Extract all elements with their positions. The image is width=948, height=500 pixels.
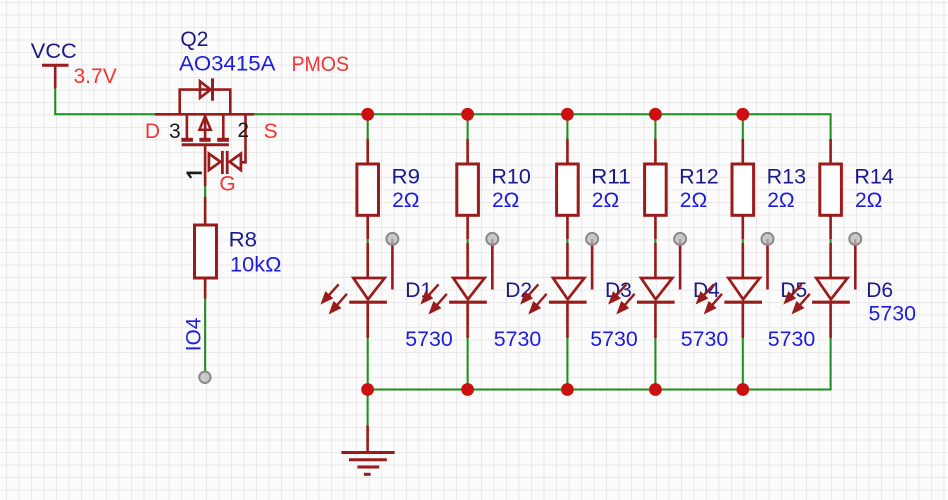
svg-text:AO3415A: AO3415A: [179, 53, 276, 76]
pin rail D-S: [155, 113, 254, 116]
wire D1 to bottom rail: [367, 338, 369, 390]
LED D4: [637, 243, 675, 338]
unconnected pin D2: [491, 239, 494, 290]
svg-text:2Ω: 2Ω: [492, 189, 519, 212]
svg-text:3.7V: 3.7V: [74, 65, 117, 88]
svg-text:R12: R12: [679, 165, 719, 188]
wire rail to R9: [367, 114, 369, 139]
LED D5: [724, 243, 762, 338]
LED D1: [349, 243, 387, 338]
svg-text:2Ω: 2Ω: [680, 189, 707, 212]
svg-text:2: 2: [237, 119, 249, 142]
wire rail to R12: [654, 114, 656, 139]
gate zener left triangle: [209, 154, 221, 171]
svg-text:5730: 5730: [405, 328, 453, 351]
pin number 1: [187, 173, 202, 178]
svg-text:2Ω: 2Ω: [592, 189, 619, 212]
LED arrows D2: [421, 284, 447, 313]
LED D2: [449, 243, 487, 338]
transistor Q2: [155, 78, 254, 186]
svg-text:D6: D6: [866, 279, 893, 302]
wire R11 to D3: [566, 239, 568, 243]
junction top rail col 1: [361, 108, 374, 121]
svg-text:R14: R14: [854, 165, 894, 188]
resistor R11: [557, 139, 579, 239]
PMOS arrow: [199, 116, 210, 130]
unconnected pin D1: [391, 239, 394, 290]
svg-text:G: G: [219, 173, 235, 196]
svg-text:2Ω: 2Ω: [392, 189, 419, 212]
svg-text:S: S: [264, 120, 278, 143]
wire D4 to bottom rail: [654, 338, 656, 390]
unconnected pin D4: [679, 239, 682, 290]
svg-text:PMOS: PMOS: [292, 53, 350, 76]
resistor R8: [195, 197, 217, 299]
svg-text:5730: 5730: [590, 328, 638, 351]
junction bottom rail col 3: [561, 383, 574, 396]
unconnected pin D3: [591, 239, 594, 290]
wire R9 to D1: [367, 239, 369, 243]
LED D3: [549, 243, 587, 338]
junction top rail col 2: [461, 108, 474, 121]
svg-text:5730: 5730: [494, 328, 542, 351]
junction bottom rail col 4: [649, 383, 662, 396]
contact verticals: [186, 114, 189, 140]
svg-text:R10: R10: [491, 165, 531, 188]
ground: [341, 426, 394, 475]
junction bottom rail col 1: [361, 383, 374, 396]
wire rail to R11: [566, 114, 568, 139]
LED D6: [812, 243, 850, 338]
junction bottom rail col 2: [461, 383, 474, 396]
svg-text:VCC: VCC: [31, 40, 77, 63]
unconnected pin D5: [766, 239, 769, 290]
LED arrows D3: [521, 284, 547, 313]
body diode legs: [180, 90, 231, 115]
LED arrows D6: [784, 284, 810, 313]
gate pin: [204, 145, 207, 186]
svg-text:R13: R13: [767, 165, 807, 188]
wire VCC to Q2 drain: [55, 88, 155, 114]
resistor R9: [357, 139, 379, 239]
svg-text:Q2: Q2: [180, 28, 208, 51]
wire Q2 gate to R8: [204, 186, 206, 197]
contact bars: [181, 138, 193, 142]
gate zener right triangle: [230, 154, 241, 171]
LED arrows D5: [696, 284, 722, 313]
wire top rail (Q2 source to LED columns): [254, 114, 831, 139]
svg-text:R11: R11: [591, 165, 631, 188]
svg-text:R8: R8: [229, 229, 258, 252]
junction bottom rail col 5: [736, 383, 749, 396]
power VCC: [42, 65, 69, 88]
LED arrows D1: [321, 284, 347, 313]
wire D3 to bottom rail: [566, 338, 568, 390]
wire R13 to D5: [742, 239, 744, 243]
wire R12 to D4: [654, 239, 656, 243]
zener to source wire: [241, 114, 246, 162]
svg-text:5730: 5730: [768, 328, 816, 351]
wire D2 to bottom rail: [467, 338, 469, 390]
gate zener bars: [221, 151, 224, 174]
svg-text:5730: 5730: [869, 303, 917, 326]
wire R14 to D6: [830, 239, 832, 243]
gate plate: [182, 143, 229, 146]
svg-text:5730: 5730: [681, 328, 729, 351]
junction top rail col 5: [736, 108, 749, 121]
wire R10 to D2: [467, 239, 469, 243]
wire rail to R13: [742, 114, 744, 139]
svg-text:3: 3: [169, 120, 181, 143]
wire bottom rail to ground: [367, 390, 369, 426]
svg-text:2Ω: 2Ω: [767, 189, 794, 212]
resistor R13: [732, 139, 754, 239]
svg-text:2Ω: 2Ω: [855, 189, 882, 212]
LED arrows D4: [609, 284, 635, 313]
wire R8 to IO4 pin: [204, 299, 206, 373]
junction top rail col 3: [561, 108, 574, 121]
pin endpoint IO4: [199, 372, 210, 383]
unconnected pin D6: [854, 239, 857, 290]
wire D5 to bottom rail: [742, 338, 744, 390]
svg-text:R9: R9: [392, 165, 421, 188]
resistor R12: [645, 139, 667, 239]
svg-text:IO4: IO4: [183, 317, 206, 351]
wire bottom rail (LED cathodes to ground): [368, 338, 831, 390]
junction top rail col 4: [649, 108, 662, 121]
resistor R10: [457, 139, 479, 239]
body diode triangle: [200, 81, 211, 98]
resistor R14: [820, 139, 842, 239]
wire rail to R10: [467, 114, 469, 139]
svg-text:D: D: [145, 120, 160, 143]
svg-text:10kΩ: 10kΩ: [230, 253, 282, 276]
body diode bar: [211, 78, 214, 100]
